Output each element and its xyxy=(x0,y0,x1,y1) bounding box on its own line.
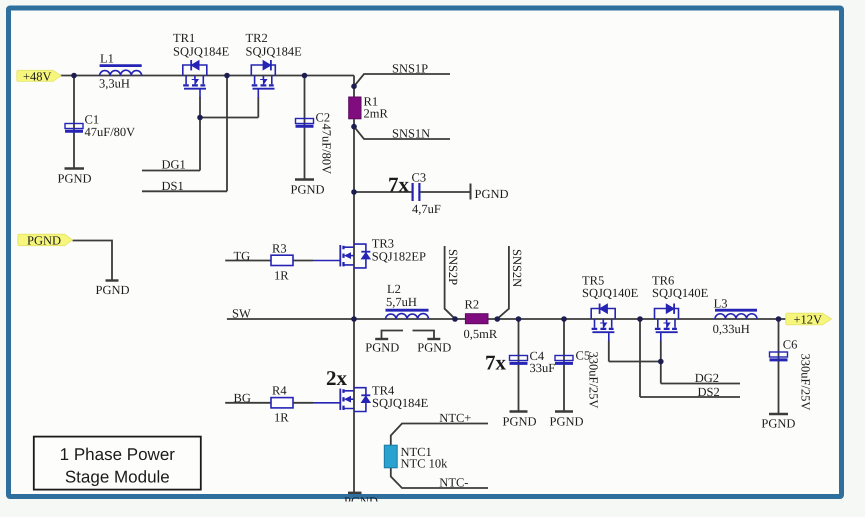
inductor L1 xyxy=(100,66,142,76)
wire L2 tap left bracket xyxy=(382,331,404,339)
power flag +12V xyxy=(786,313,832,325)
label PGND bottom clipped xyxy=(344,495,378,509)
svg-text:PGND: PGND xyxy=(291,183,325,197)
inductor L2 xyxy=(386,310,429,319)
power flag PGND left xyxy=(18,234,73,246)
ground C5 xyxy=(555,410,573,412)
transistor TR4 xyxy=(313,388,370,412)
svg-text:3,3uH: 3,3uH xyxy=(99,77,130,91)
node C6 tap xyxy=(776,316,782,322)
svg-text:TG: TG xyxy=(234,249,251,263)
svg-text:R3: R3 xyxy=(272,242,287,256)
wire +48V rail xyxy=(61,75,355,77)
wire C1 branch xyxy=(73,76,75,169)
svg-text:NTC+: NTC+ xyxy=(439,411,471,425)
svg-text:C6: C6 xyxy=(783,338,798,352)
svg-text:DS2: DS2 xyxy=(698,385,720,399)
svg-text:7x: 7x xyxy=(388,173,410,197)
svg-text:PGND: PGND xyxy=(58,172,92,186)
wire C5 branch xyxy=(563,319,565,411)
svg-text:DG1: DG1 xyxy=(162,158,186,172)
svg-text:PGND: PGND xyxy=(503,415,537,429)
svg-text:DS1: DS1 xyxy=(162,179,184,193)
resistor R4 xyxy=(271,398,293,408)
ground PGND flag xyxy=(106,279,119,281)
wire SNS2P xyxy=(445,246,455,319)
transistor TR6 xyxy=(655,304,679,342)
wire C2 branch xyxy=(304,76,306,180)
svg-text:NTC 10k: NTC 10k xyxy=(401,457,449,471)
transistor TR5 xyxy=(591,304,615,342)
wire C6 branch xyxy=(778,319,780,414)
capacitor C4 xyxy=(510,356,528,364)
svg-text:PGND: PGND xyxy=(417,341,451,355)
node SNS1P xyxy=(351,84,357,90)
wire SW rail xyxy=(227,318,786,320)
power flag +48V xyxy=(17,70,61,81)
svg-text:SQJQ140E: SQJQ140E xyxy=(582,286,639,300)
wire DG2 xyxy=(661,383,740,385)
resistor R1 xyxy=(349,97,361,119)
transistor TR2 xyxy=(251,60,275,98)
svg-text:330uF/25V: 330uF/25V xyxy=(799,354,813,411)
svg-text:2mR: 2mR xyxy=(364,107,389,121)
svg-text:PGND: PGND xyxy=(365,341,399,355)
svg-text:0,33uH: 0,33uH xyxy=(713,322,750,336)
svg-text:1 Phase Power: 1 Phase Power xyxy=(60,445,176,464)
ground C1 xyxy=(65,167,85,169)
wire main vertical bus xyxy=(353,76,355,494)
svg-text:SQJQ184E: SQJQ184E xyxy=(173,45,230,59)
capacitor C2 xyxy=(296,119,314,127)
terminal PGND C3 xyxy=(470,184,472,200)
node C2 tap xyxy=(302,73,308,79)
wire NTC plus xyxy=(391,424,488,446)
inductor L3 xyxy=(715,310,757,319)
wire DG1 xyxy=(142,170,200,172)
svg-text:0,5mR: 0,5mR xyxy=(464,327,498,341)
svg-text:TR1: TR1 xyxy=(173,31,195,45)
capacitor C3 xyxy=(413,183,420,201)
wire SNS2N xyxy=(497,246,509,319)
ground L2 right xyxy=(427,338,440,340)
wire TR5 TR6 gate tie xyxy=(609,341,661,384)
svg-text:C2: C2 xyxy=(316,111,331,125)
svg-text:SQJQ184E: SQJQ184E xyxy=(246,45,303,59)
svg-text:C3: C3 xyxy=(412,171,427,185)
svg-text:4,7uF: 4,7uF xyxy=(412,202,441,216)
svg-text:DG2: DG2 xyxy=(695,371,719,385)
svg-text:SQJQ184E: SQJQ184E xyxy=(372,396,429,410)
node SW xyxy=(351,316,357,322)
ground C4 xyxy=(510,410,528,412)
node C4 tap xyxy=(516,316,522,322)
svg-text:PGND: PGND xyxy=(475,187,509,201)
thermistor NTC1 xyxy=(384,445,397,468)
svg-text:TR2: TR2 xyxy=(246,31,268,45)
svg-text:PGND: PGND xyxy=(27,234,61,248)
resistor R2 xyxy=(465,314,488,324)
svg-text:L3: L3 xyxy=(714,297,728,311)
svg-text:PGND: PGND xyxy=(96,283,130,297)
wire C3 branch xyxy=(354,191,471,193)
svg-text:SNS1P: SNS1P xyxy=(392,62,428,76)
transistor TR3 xyxy=(313,244,370,268)
svg-text:TR3: TR3 xyxy=(372,237,394,251)
svg-text:1R: 1R xyxy=(274,411,289,425)
svg-text:47uF/80V: 47uF/80V xyxy=(85,125,136,139)
svg-text:SW: SW xyxy=(232,307,251,321)
node SNS1N xyxy=(351,124,357,130)
svg-text:PGND: PGND xyxy=(761,417,795,431)
svg-text:R2: R2 xyxy=(465,298,480,312)
svg-text:SNS1N: SNS1N xyxy=(392,127,430,141)
svg-text:Stage Module: Stage Module xyxy=(65,468,170,487)
node DG1 xyxy=(197,115,203,121)
wire C4 branch xyxy=(518,319,520,411)
svg-text:7x: 7x xyxy=(485,351,507,375)
ground C6 xyxy=(769,413,788,415)
node TR5-TR6 xyxy=(637,316,643,322)
capacitor C5 xyxy=(555,356,573,364)
svg-text:BG: BG xyxy=(234,391,251,405)
transistor TR1 xyxy=(183,60,207,98)
svg-text:PGND: PGND xyxy=(550,415,584,429)
svg-text:R4: R4 xyxy=(272,384,287,398)
wire DS1 xyxy=(142,76,227,192)
node TR1-TR2 xyxy=(224,73,230,79)
ground L2 left xyxy=(375,338,388,340)
resistor R3 xyxy=(271,255,293,265)
svg-text:2x: 2x xyxy=(326,366,348,390)
svg-text:L2: L2 xyxy=(387,282,401,296)
wire NTC minus xyxy=(391,468,488,488)
node C3 tap xyxy=(351,189,357,195)
svg-text:NTC-: NTC- xyxy=(439,475,468,489)
svg-text:330uF/25V: 330uF/25V xyxy=(587,352,601,409)
wire PGND flag xyxy=(73,241,113,281)
ground TR4 bottom xyxy=(348,492,362,494)
svg-text:SNS2P: SNS2P xyxy=(446,249,460,285)
svg-text:SQJ182EP: SQJ182EP xyxy=(372,250,426,264)
wire L2 tap right bracket xyxy=(413,331,435,339)
svg-text:+48V: +48V xyxy=(23,69,52,83)
label box 1 Phase Power Stage Module xyxy=(34,437,201,490)
wire BG xyxy=(225,402,313,404)
svg-text:33uF: 33uF xyxy=(530,361,556,375)
svg-text:L1: L1 xyxy=(100,52,114,66)
node C5 tap xyxy=(561,316,567,322)
wire SNS1P xyxy=(354,74,450,86)
svg-text:SNS2N: SNS2N xyxy=(510,249,524,287)
capacitor C6 xyxy=(770,352,788,360)
ground C2 xyxy=(295,178,314,180)
node SNS2P xyxy=(452,316,458,322)
capacitor C1 xyxy=(65,124,83,132)
wire SNS1N xyxy=(354,127,450,139)
wire TG xyxy=(225,260,313,262)
svg-text:SQJQ140E: SQJQ140E xyxy=(652,286,709,300)
svg-text:1R: 1R xyxy=(274,269,289,283)
wire DS2 xyxy=(640,319,740,397)
svg-text:+12V: +12V xyxy=(794,313,823,327)
svg-text:5,7uH: 5,7uH xyxy=(386,295,417,309)
node DG2 xyxy=(658,359,664,365)
svg-text:47uF/80V: 47uF/80V xyxy=(320,124,334,175)
node C1 tap xyxy=(71,73,77,79)
wire TR1 TR2 gate tie xyxy=(200,97,258,171)
node SNS2N xyxy=(495,316,501,322)
